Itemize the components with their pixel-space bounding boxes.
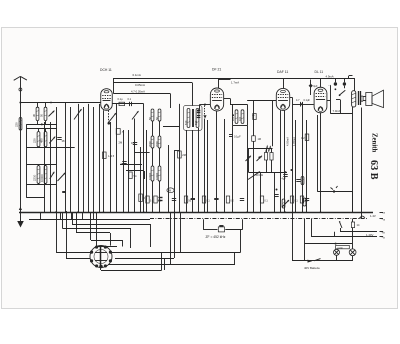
svg-text:40V Batterie: 40V Batterie xyxy=(304,266,320,270)
svg-text:1+4.5: 1+4.5 xyxy=(108,155,115,158)
wire corner down xyxy=(199,105,201,110)
pot arrow 50k xyxy=(248,172,260,180)
wire speaker down xyxy=(361,108,363,219)
wire tube1 grid lead dashed xyxy=(108,110,110,122)
wire det box links xyxy=(266,160,268,172)
svg-text:4.7: 4.7 xyxy=(296,99,300,102)
wire antenna lead down xyxy=(20,76,22,212)
wire v143 xyxy=(143,104,145,212)
wire socket right 4 xyxy=(108,264,235,266)
wire v168 xyxy=(168,145,170,212)
resistor 130 xyxy=(129,172,132,179)
lamp leads xyxy=(336,248,338,251)
svg-text:610: 610 xyxy=(184,120,188,125)
cap 10 xyxy=(133,142,137,144)
svg-text:0.1μF: 0.1μF xyxy=(304,99,311,102)
svg-text:DL 11: DL 11 xyxy=(315,70,324,74)
output transformer primary xyxy=(352,91,356,107)
wire 7.0mA to transformer xyxy=(330,113,352,115)
wire S2 tick xyxy=(344,86,346,89)
meter circle M xyxy=(167,188,174,193)
wire v353 xyxy=(352,219,354,222)
wire IFT2 down leads xyxy=(232,125,234,212)
wire tube2 left xyxy=(200,104,211,106)
wire v140 xyxy=(140,147,142,212)
svg-text:2000: 2000 xyxy=(155,141,159,147)
wire riser H3 end xyxy=(170,93,172,108)
wire IFT2 top xyxy=(230,104,247,106)
wire tube3 cathode down xyxy=(280,110,282,212)
cap 0.1uF xyxy=(229,134,233,136)
cap near bus 1 xyxy=(172,198,176,200)
wire v161 xyxy=(161,253,163,270)
svg-text:0.1mA: 0.1mA xyxy=(133,73,141,77)
svg-text:DAF 11: DAF 11 xyxy=(277,70,288,74)
junction arrow at bus xyxy=(19,207,22,210)
plug loop on antenna lead xyxy=(19,88,22,91)
trimmer arrow C1 xyxy=(49,111,55,117)
node dots IFT2 xyxy=(232,114,234,116)
wire rail y129 xyxy=(26,128,57,130)
tube DCH 11 xyxy=(101,89,113,111)
wire battery bottom xyxy=(292,260,352,262)
node junction xyxy=(19,102,21,104)
cap near bus 5 xyxy=(305,198,309,200)
wire L 126 xyxy=(126,170,144,172)
coil L3a xyxy=(37,132,40,147)
coil blob below xyxy=(197,115,200,117)
svg-text:2M: 2M xyxy=(119,141,123,145)
wire v179 xyxy=(179,104,181,212)
coil L4b xyxy=(44,166,47,184)
switch on chassis line xyxy=(359,216,362,219)
wire tube3 top riser xyxy=(283,78,285,88)
wire v50 xyxy=(50,122,52,212)
antenna coil L1 xyxy=(19,118,22,131)
wire v224 xyxy=(224,119,226,212)
wire tube2 cathode down xyxy=(216,111,218,212)
wire v71 xyxy=(70,107,72,212)
terminal -b xyxy=(380,236,384,238)
wire left col riser xyxy=(26,124,28,197)
antenna xyxy=(14,76,27,80)
svg-text:+b: +b xyxy=(382,230,386,234)
resistor det1 xyxy=(264,153,267,161)
wire v330 xyxy=(330,85,332,113)
wire v292 xyxy=(292,98,294,213)
svg-text:7.0mA: 7.0mA xyxy=(333,109,341,113)
svg-text:4μF: 4μF xyxy=(282,178,287,181)
grid cap dashes xyxy=(204,106,206,115)
tube DAF 11 xyxy=(276,88,289,110)
cap 216 xyxy=(214,198,218,200)
wire v88 xyxy=(88,104,90,212)
wire v56 xyxy=(56,107,58,212)
trimmer cap 38 xyxy=(57,137,61,139)
wire v272 xyxy=(272,101,274,146)
wire battery riser long xyxy=(292,212,294,261)
wire v192b xyxy=(192,130,194,212)
transformer core xyxy=(358,91,360,105)
wire step L3 xyxy=(76,212,78,233)
cap tap 64 xyxy=(62,191,66,193)
wire primary bottom down xyxy=(352,107,354,212)
resistor right xyxy=(351,222,354,228)
coupling cap xyxy=(300,102,302,107)
wire riser H joined xyxy=(113,78,115,93)
coil L2b xyxy=(44,107,47,120)
wire riser H2 end to IFT1 xyxy=(192,83,194,106)
node dot grid xyxy=(204,104,206,106)
diode arrow 2 xyxy=(257,156,263,161)
wire tube1 anode right xyxy=(112,103,143,105)
svg-text:1.05mA: 1.05mA xyxy=(292,137,296,146)
cap black blobs xyxy=(197,110,200,112)
wire IFT2 left xyxy=(232,104,234,125)
wire v99 xyxy=(99,104,101,212)
svg-text:4 Volt: 4 Volt xyxy=(337,246,343,249)
svg-text:480: 480 xyxy=(40,138,44,143)
wire det drops xyxy=(260,172,262,212)
resistor box near bus xyxy=(139,194,143,202)
svg-text:10000: 10000 xyxy=(155,172,159,180)
cap 0.1 xyxy=(129,102,131,106)
svg-text:1.40V: 1.40V xyxy=(366,233,373,237)
variable coil cluster 285 xyxy=(282,200,289,207)
coil L4a xyxy=(37,166,40,184)
wire socket left 1 xyxy=(56,211,58,253)
svg-text:4.9mA: 4.9mA xyxy=(326,75,334,79)
IFT2 coil b xyxy=(241,110,244,124)
variable arrow osc B xyxy=(132,111,139,120)
switch lever S3 xyxy=(339,90,345,95)
wire top rail left block xyxy=(20,102,100,104)
resistor det2 xyxy=(270,153,273,161)
svg-text:220: 220 xyxy=(33,138,37,143)
wire v129 xyxy=(128,130,130,212)
wire hook xyxy=(348,76,350,78)
svg-text:2M: 2M xyxy=(182,153,186,157)
resistor b2 xyxy=(154,196,157,203)
wire choke link xyxy=(336,99,340,101)
wire to tube3 xyxy=(247,100,276,102)
trimmer arrow C2 xyxy=(74,109,82,120)
coil pair 2000 xyxy=(151,136,154,148)
IFT1 primary coil xyxy=(187,109,190,128)
svg-text:0.1: 0.1 xyxy=(128,97,132,101)
switch S1 xyxy=(334,82,337,85)
wire socket left 2 xyxy=(66,211,68,259)
heater stubs xyxy=(40,212,42,219)
terminal +a xyxy=(380,212,384,214)
svg-text:10000: 10000 xyxy=(148,172,152,180)
svg-text:30: 30 xyxy=(32,113,36,117)
svg-text:ZF = 452 kHz: ZF = 452 kHz xyxy=(206,235,226,239)
node blob xyxy=(108,122,111,125)
coil pair 50 xyxy=(151,109,154,121)
cap near bus 3 xyxy=(274,194,278,196)
resistor 0.5 xyxy=(116,129,120,135)
wire y165 link xyxy=(120,164,142,166)
resistor b6 xyxy=(260,196,263,203)
svg-text:100: 100 xyxy=(239,116,242,121)
svg-text:0.2: 0.2 xyxy=(301,136,305,140)
ground arrow below bus xyxy=(20,212,22,221)
wire socket right 1 xyxy=(112,252,240,254)
coil pair 10000 xyxy=(151,166,154,181)
wire tube2 grid to IFT2 xyxy=(224,98,230,100)
variable arrow osc xyxy=(109,113,116,122)
wire IFT2 bottom xyxy=(233,125,247,127)
wire rail y184 xyxy=(26,184,56,186)
wire v341 xyxy=(340,228,342,232)
resistor 2M xyxy=(178,151,182,158)
wire rail y147 xyxy=(26,147,74,149)
wire rail y164 xyxy=(26,164,56,166)
svg-text:4.7·0.05mA: 4.7·0.05mA xyxy=(131,89,145,93)
coil L2a xyxy=(36,107,39,120)
diode arrow 1 xyxy=(246,156,252,161)
wire tube3 plate stub xyxy=(290,97,293,99)
wire v186 xyxy=(186,130,188,212)
wire det rail top xyxy=(248,148,272,150)
output transformer secondary xyxy=(361,96,363,101)
resistor b5 xyxy=(226,196,229,203)
filter box xyxy=(218,227,224,232)
svg-text:2210: 2210 xyxy=(33,174,37,181)
wire socket right 2 xyxy=(115,258,174,260)
battery box 4 Volt xyxy=(336,245,350,248)
resistor b7 xyxy=(290,196,293,203)
wire step L5 xyxy=(96,212,98,246)
wire rail 0.05mA xyxy=(113,82,192,84)
wire v83 xyxy=(83,107,85,212)
lamp 2 xyxy=(349,249,356,256)
wire det left riser xyxy=(248,148,250,172)
speaker xyxy=(366,90,384,107)
grid blob arrow xyxy=(203,115,206,118)
cap 30 xyxy=(122,161,126,163)
heater wire left xyxy=(29,219,150,221)
socket circle xyxy=(90,245,112,268)
cap pair 298 xyxy=(296,179,300,181)
wire v198 xyxy=(198,128,200,212)
wire v207 xyxy=(207,120,209,212)
wire coil leads P2 P3 xyxy=(38,129,40,132)
resistor 0.1 xyxy=(119,102,125,105)
grid cap tube4 xyxy=(310,80,312,96)
wire v204 xyxy=(204,119,206,212)
resistor b8 xyxy=(300,196,303,203)
wire v152 xyxy=(152,121,154,136)
wire v93 xyxy=(93,107,95,212)
wire y126 link xyxy=(163,126,179,128)
svg-text:10000: 10000 xyxy=(40,174,44,182)
wire y237 xyxy=(312,236,377,238)
wire v295 xyxy=(295,120,297,212)
wire tube4 top riser xyxy=(320,78,322,87)
wire v302 xyxy=(302,103,304,213)
battery switch arrow xyxy=(308,260,313,263)
cap 192 xyxy=(191,198,195,200)
resistor 1M xyxy=(252,136,256,142)
wire v45 xyxy=(44,122,46,212)
wire v165 xyxy=(164,258,166,270)
main bus wire xyxy=(19,212,373,214)
wire IFT2 right xyxy=(247,104,249,125)
wire tube1 cathode down xyxy=(103,110,105,212)
cap left tube3 xyxy=(253,114,256,120)
lamp 1 xyxy=(334,249,340,255)
svg-text:Zenith: Zenith xyxy=(370,133,377,152)
node dot battery xyxy=(335,243,337,245)
wire v65 xyxy=(65,103,67,212)
wire v146 xyxy=(146,130,148,212)
wire v123 xyxy=(123,130,125,212)
wire v78 xyxy=(78,104,80,212)
terminal +b xyxy=(380,231,384,233)
wire v110 xyxy=(110,122,112,212)
svg-text:1.4V: 1.4V xyxy=(370,214,376,218)
resistor b3 xyxy=(184,196,187,203)
wire v174 xyxy=(174,151,176,212)
switch S2 xyxy=(343,82,346,85)
svg-text:0.1μF: 0.1μF xyxy=(234,135,241,139)
svg-text:610: 610 xyxy=(194,120,198,125)
wire rail 0.1mA xyxy=(113,78,354,80)
svg-text:+a: +a xyxy=(382,211,386,215)
wire v135 xyxy=(134,141,136,212)
coupling blob xyxy=(300,103,302,105)
coil L3b xyxy=(44,132,47,147)
svg-text:−a: −a xyxy=(382,218,386,222)
tube DF 21 xyxy=(210,88,223,111)
trimmer arrow C4 xyxy=(58,173,66,182)
wire socket right 3 xyxy=(100,268,102,271)
wire v159 xyxy=(159,121,161,136)
switch dot on jack run xyxy=(333,190,335,192)
svg-text:50: 50 xyxy=(40,113,44,117)
svg-text:DCH 11: DCH 11 xyxy=(100,68,112,72)
IF transformer 1 box xyxy=(184,106,203,131)
wire h179 top xyxy=(174,150,179,152)
svg-text:4.05mA: 4.05mA xyxy=(286,137,290,146)
cap dark 160 xyxy=(159,197,163,199)
IFT1 secondary coil xyxy=(196,109,199,128)
cap C 1+4.5 xyxy=(103,152,107,159)
switch lever right xyxy=(340,222,342,228)
zigzag over boxes xyxy=(266,146,272,152)
svg-text:0.1μ: 0.1μ xyxy=(118,97,124,101)
resistor b1 xyxy=(146,196,149,203)
tube DL 11 xyxy=(314,87,327,113)
wire battery chassis riser xyxy=(304,219,306,261)
wire jack run xyxy=(317,115,319,192)
svg-text:220: 220 xyxy=(15,122,19,127)
svg-text:2000: 2000 xyxy=(148,141,152,147)
wire corner to transformer xyxy=(354,78,356,91)
svg-text:100: 100 xyxy=(232,116,235,121)
wire tube4 anode right xyxy=(327,100,330,102)
svg-text:−b: −b xyxy=(382,236,386,240)
wire y237 riser xyxy=(311,219,313,237)
wire L 134 xyxy=(134,119,136,153)
svg-text:M: M xyxy=(169,190,171,193)
wire rail y124.4 xyxy=(26,124,57,126)
wire rail y197.6 xyxy=(26,197,44,199)
svg-text:0.05mA: 0.05mA xyxy=(135,83,145,87)
cap near bus 2 xyxy=(240,198,244,200)
trimmer arrow C2b xyxy=(49,137,55,144)
resistor coil 303 xyxy=(303,198,306,206)
wire v335 xyxy=(334,232,336,237)
cap 4uF below tube3 xyxy=(285,171,287,173)
IFT1 core xyxy=(192,109,194,127)
wire v253 xyxy=(253,101,255,136)
svg-text:63 B: 63 B xyxy=(368,160,379,180)
wire ZF loop xyxy=(203,229,217,231)
svg-text:1M: 1M xyxy=(258,138,261,141)
resistor at tube4 xyxy=(305,134,309,140)
wire secondary to speaker xyxy=(363,96,366,98)
bus junction dots xyxy=(55,211,57,213)
svg-text:50 kΩ: 50 kΩ xyxy=(256,173,263,177)
IFT2 coil a xyxy=(235,110,238,124)
svg-text:DF 21: DF 21 xyxy=(212,68,221,72)
node junction 2 xyxy=(41,123,43,125)
wire step L1 xyxy=(72,212,74,224)
wire tube2 top riser xyxy=(218,80,220,89)
wire step L2 xyxy=(62,212,64,229)
wire tube4 cathode down xyxy=(320,113,322,212)
wire y231.8 xyxy=(340,231,377,233)
wire step L4 xyxy=(90,212,92,240)
wire rail 4.7mA xyxy=(113,93,170,95)
svg-text:1.7mA: 1.7mA xyxy=(231,80,239,84)
wire coil leads P1 xyxy=(37,103,39,108)
wire v307 xyxy=(306,120,308,212)
terminal -a xyxy=(380,218,384,220)
wire v116 xyxy=(116,104,118,212)
chassis dash-dot wire xyxy=(150,218,368,220)
trimmer arrow C3 xyxy=(50,172,55,179)
wire battery top xyxy=(304,243,352,245)
resistor b4 xyxy=(202,196,205,203)
wire det rail bottom xyxy=(248,172,287,174)
